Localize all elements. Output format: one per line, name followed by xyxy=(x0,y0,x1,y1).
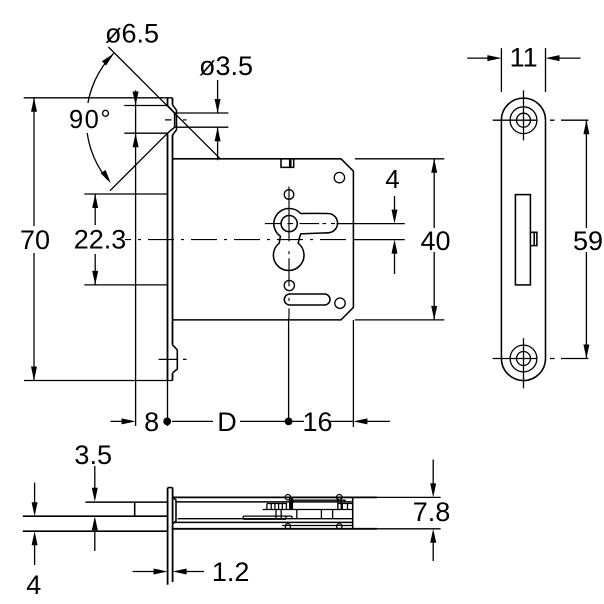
dimension 4 (bottom) line xyxy=(34,483,36,565)
dimension ø6.5 arrows xyxy=(133,92,139,106)
svg-text:90°: 90° xyxy=(69,106,112,134)
dimension 11 line xyxy=(467,57,580,59)
lower screw pressed boss xyxy=(173,345,178,373)
bottom screw hole outer xyxy=(510,345,537,372)
faceplate right line xyxy=(172,488,174,582)
case top line + 7.8 extension xyxy=(173,496,377,498)
faceplate bottom edge + 70 extension line xyxy=(24,380,173,382)
svg-text:8: 8 xyxy=(144,407,159,437)
dimension 4 arrows xyxy=(392,210,398,224)
top screw hole outer xyxy=(510,107,537,134)
dim row arrows xyxy=(122,418,136,424)
lower plate line right part xyxy=(282,525,353,527)
lower screw center tick xyxy=(159,358,187,360)
case right edge extension down to dim row xyxy=(352,320,354,427)
dim row dots xyxy=(163,418,171,426)
cutout notch xyxy=(530,232,537,245)
dimension ø6.5 extension lines xyxy=(124,106,167,134)
dimension 59 extension lines xyxy=(561,120,589,358)
dimension 7.8 line xyxy=(432,460,434,562)
bottom dimension row line 8-D-16 xyxy=(111,420,391,422)
svg-text:22.3: 22.3 xyxy=(74,225,127,255)
keyhole vertical centerline xyxy=(288,187,290,319)
faceplate top edge xyxy=(168,487,173,489)
countersink pressed boss xyxy=(173,105,177,135)
spindle hole xyxy=(281,216,297,232)
angle leg 2 (45 deg from cone bottom corner) xyxy=(110,133,168,191)
dimension 59 line xyxy=(585,120,587,358)
svg-text:ø6.5: ø6.5 xyxy=(105,19,159,49)
mechanism spring band xyxy=(293,500,345,502)
faceplate left edge xyxy=(167,98,169,381)
lever centerline extension for dim 4 xyxy=(337,223,405,225)
dimension 3.5 line xyxy=(94,466,96,551)
dimension 22.3 extension lines (faceplate cutout edges) xyxy=(84,194,167,285)
bolt step tick xyxy=(134,502,136,516)
main horizontal centerline xyxy=(125,239,354,241)
rivet bar xyxy=(289,497,293,509)
faceplate sides xyxy=(501,120,545,358)
top tab in case xyxy=(281,159,294,168)
faceplate (edge-on) left line xyxy=(167,488,169,585)
keyhole lever blob xyxy=(273,208,337,270)
dimension 40 arrows xyxy=(431,159,437,173)
dimension 1.2 line xyxy=(133,571,204,573)
faceplate right edge xyxy=(172,98,174,381)
dimension 59 arrows xyxy=(583,120,589,134)
faceplate bottom cap xyxy=(501,359,545,381)
angle leg 1 (45 deg through cone top corner) xyxy=(108,47,220,159)
bolt line A (3.5 upper) xyxy=(86,501,352,503)
bolt line B xyxy=(23,515,168,517)
dimension 40 line xyxy=(433,159,435,320)
svg-text:7.8: 7.8 xyxy=(413,497,451,527)
svg-text:ø3.5: ø3.5 xyxy=(199,51,253,81)
lever horizontal centerline xyxy=(265,223,335,225)
inner wall behind faceplate xyxy=(173,497,176,523)
dimension 22.3 line xyxy=(94,194,96,285)
countersink hole edge lines (ø3.5 extensions) xyxy=(175,113,228,127)
case bottom extension to 40 dim xyxy=(355,319,444,321)
dimension 11 arrows xyxy=(487,55,501,61)
faceplate top cap xyxy=(501,98,545,120)
dimension 1.2 arrows xyxy=(154,569,168,575)
svg-text:D: D xyxy=(217,407,237,437)
cutout rectangle xyxy=(515,195,530,285)
bottom screw hole inner xyxy=(517,352,531,366)
main centerline extension for dim 4 xyxy=(354,239,405,241)
faceplate left edge extension down to dim row xyxy=(167,381,169,427)
inner plate line and chamfer xyxy=(178,518,353,520)
case end vertical xyxy=(352,497,354,528)
svg-text:4: 4 xyxy=(385,164,399,194)
dimension ø6.5 / 8 shared vertical line xyxy=(135,90,137,426)
inner bottom plate line xyxy=(175,521,353,523)
countersink cone xyxy=(168,106,175,134)
dimension 3.5 arrows xyxy=(92,488,98,502)
mechanism comb rows xyxy=(243,497,353,519)
countersink center tick xyxy=(165,119,187,121)
svg-text:4: 4 xyxy=(26,570,41,600)
dimension 4 arrows xyxy=(32,502,38,516)
dimension 4 (right) line xyxy=(394,196,396,274)
lock case outline xyxy=(173,159,354,320)
arc arrowheads xyxy=(102,54,114,66)
rivet circles xyxy=(285,495,290,500)
dimension ø3.5 line xyxy=(217,80,219,160)
top hole cross lines xyxy=(493,90,555,140)
screw hole top xyxy=(334,172,344,182)
slot xyxy=(284,294,330,305)
dimension 70 line xyxy=(33,98,35,381)
svg-text:3.5: 3.5 xyxy=(74,440,112,470)
faceplate top edge + 70 extension line xyxy=(24,97,173,99)
svg-text:16: 16 xyxy=(302,407,332,437)
bottom hole cross lines xyxy=(493,338,555,388)
dimension 70 arrows xyxy=(31,98,37,112)
svg-text:59: 59 xyxy=(573,226,603,256)
keyhole centerline extension to dim row xyxy=(288,318,290,421)
svg-text:40: 40 xyxy=(420,226,450,256)
case top extension to 40 dim xyxy=(355,158,444,160)
dimension 22.3 arrows xyxy=(92,194,98,208)
label 90deg background xyxy=(63,103,116,133)
svg-text:1.2: 1.2 xyxy=(212,557,250,587)
case bottom line + 7.8 extension xyxy=(172,528,377,530)
90 degree arc xyxy=(86,53,113,179)
top screw hole inner xyxy=(517,113,531,127)
small hole below lever xyxy=(284,280,294,290)
bolt line C xyxy=(23,530,168,532)
screw hole bottom xyxy=(335,298,345,308)
dimension 7.8 arrows xyxy=(430,483,436,497)
svg-text:70: 70 xyxy=(20,225,50,255)
dimension ø3.5 arrows xyxy=(215,99,221,113)
small hole above lever xyxy=(284,190,294,200)
dimension 11 extension lines xyxy=(501,48,545,92)
svg-text:11: 11 xyxy=(510,43,538,73)
